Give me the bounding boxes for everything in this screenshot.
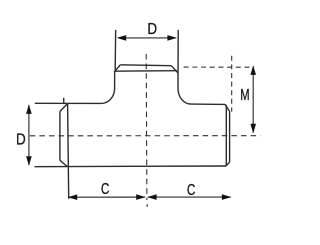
arrowhead C left inner [136,194,146,200]
arrowhead D left down [26,156,32,166]
branch bevel top edge [120,64,171,67]
dim D top: dimension line [118,37,176,39]
label C left [101,179,110,197]
branch top level dashed line [184,66,252,68]
horizontal centerline [30,135,261,137]
arrowhead C left outer [68,194,78,200]
right end bottom chamfer [226,162,230,166]
branch left side + left fillet into run [101,71,114,103]
dim M right: dimension line [252,66,254,132]
label D top [147,21,157,38]
left end top chamfer [60,104,68,112]
branch bevel bottom edge [114,70,177,73]
svg-text:D: D [147,21,157,38]
branch right side / D extension + right fillet into run [178,30,191,104]
svg-text:M: M [240,85,249,104]
left end face back edge [59,111,61,160]
left end top tick [63,98,65,103]
branch bevel right diagonal [171,66,178,73]
branch left side upper / D extension [114,30,116,70]
vertical branch centerline [145,54,148,200]
label D left [16,132,26,149]
svg-text:D: D [16,132,26,149]
right end top chamfer [225,104,230,111]
left end bottom chamfer [60,160,68,166]
arrowhead M down [250,124,256,134]
svg-text:C: C [101,179,110,197]
branch bevel left diagonal [114,65,120,72]
arrowhead C right inner [147,194,157,200]
arrowhead D left up [26,104,32,114]
run top left with dimension overshoot [35,102,102,104]
arrowhead D top left [117,35,127,41]
run top right [191,103,225,105]
label M right [240,85,249,104]
arrowhead M up [250,65,256,75]
right end plane dashed line [231,56,233,112]
dim C right: dimension line [148,196,231,198]
left end face front edge + C extension line [68,104,69,199]
label C right [187,180,196,198]
arrowhead C right outer [222,194,232,200]
vertical branch centerline end dot [146,204,148,207]
run bottom with left dimension overshoot [35,165,227,168]
right end face front edge [229,111,231,161]
dim D left: dimension line [28,105,30,165]
arrowhead D top right [167,35,177,41]
right end face back edge [225,105,227,166]
dim C left: dimension line [69,196,146,198]
svg-text:C: C [187,180,196,198]
